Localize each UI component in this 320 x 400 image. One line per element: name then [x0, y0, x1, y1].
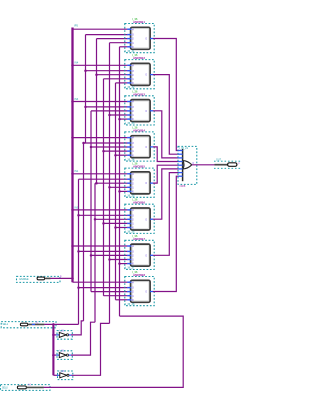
- junction B-bar row U2: [84, 69, 87, 72]
- wire to INV3 input: [53, 374, 57, 376]
- wire to U1 pin2: [86, 34, 128, 36]
- junction D row U6: [102, 222, 105, 225]
- svg-text:AND5B3: AND5B3: [133, 92, 145, 96]
- wire net B-bar vertical x83 lower: [83, 143, 85, 321]
- wire net EN2 vertical x119: [119, 47, 121, 316]
- wire U2 output to OR8 input 2: [153, 75, 179, 155]
- input terminal A1: [1, 321, 56, 327]
- junction riser INV1 tap: [52, 334, 55, 337]
- svg-text:IN1: IN1: [75, 170, 79, 173]
- svg-text:AND5B8: AND5B8: [133, 273, 145, 277]
- wire E to U8 pin1: [73, 281, 128, 283]
- junction E terminal to bus: [71, 277, 74, 280]
- svg-text:I_36_38: I_36_38: [125, 303, 135, 306]
- wire to INV1 input: [53, 334, 56, 336]
- wire to U3 pin2: [86, 106, 128, 108]
- junction B row U8: [77, 286, 80, 289]
- svg-text:O: O: [145, 110, 147, 113]
- wire to U3 pin3: [91, 110, 127, 112]
- wire U3 output to OR8 input 3: [153, 111, 179, 158]
- wire net D-bar vertical x109: [109, 43, 111, 324]
- inverter INV2: [56, 351, 72, 360]
- wire to U8 pin3: [91, 291, 127, 293]
- wire net C-bar vertical x96 upper: [96, 39, 98, 184]
- wire to U6 pin4: [104, 222, 128, 224]
- junction E bus row U6: [71, 209, 74, 212]
- junction C-bar row U5: [95, 182, 98, 185]
- junction D-bar row U3: [108, 114, 111, 117]
- wire INV1 output to riser x85: [71, 321, 84, 335]
- junction EN2 row U5: [118, 190, 121, 193]
- wire E terminal to bus: [50, 277, 72, 279]
- output terminal OUT: [214, 159, 241, 169]
- svg-text:O: O: [145, 74, 147, 77]
- wire U8 output to OR8 input 8: [153, 176, 179, 291]
- svg-text:IN4: IN4: [75, 62, 79, 65]
- junction riser INV2 tap: [52, 354, 55, 357]
- svg-text:OUT: OUT: [216, 159, 222, 162]
- svg-text:OR8: OR8: [180, 184, 186, 188]
- wire to U8 pin2: [79, 287, 128, 289]
- junction EN3 row U6: [114, 226, 117, 229]
- wire to U7 pin2: [79, 250, 128, 252]
- wire OR8 output to OUT terminal: [192, 164, 215, 166]
- junction C-bar row U2: [95, 73, 98, 76]
- junction D-bar row U5: [108, 186, 111, 189]
- junction D-bar row U7: [108, 258, 111, 261]
- svg-text:AND5B5: AND5B5: [133, 165, 145, 169]
- and-block U1 (AND5B1): [125, 17, 154, 53]
- wire E to U4 pin1: [73, 137, 128, 139]
- svg-text:SEL1: SEL1: [3, 324, 9, 326]
- input terminal A0 (bottom): [1, 384, 51, 391]
- wire net C vertical x91: [90, 111, 92, 292]
- wire to U6 pin3: [95, 218, 127, 220]
- wire to U7 pin5: [120, 263, 128, 265]
- svg-text:AND5B7: AND5B7: [133, 237, 145, 241]
- wire net B-bar vertical x85 upper: [85, 35, 87, 143]
- junction E bus row U7: [71, 245, 74, 248]
- junction EN2 row U7: [118, 262, 121, 265]
- wire to U5 pin3: [97, 182, 128, 184]
- wire to U5 pin2: [79, 178, 128, 180]
- wire E to U2 pin1: [73, 64, 128, 66]
- wire E to U6 pin1: [73, 209, 128, 211]
- wire U4 output to OR8 input 4: [153, 147, 179, 162]
- junction A1 wire to inverter riser: [52, 323, 55, 326]
- wire net EN3 vertical x115: [115, 83, 117, 300]
- wire to U3 pin5: [120, 118, 128, 120]
- svg-text:O: O: [145, 146, 147, 149]
- wire to U2 pin5: [116, 82, 128, 84]
- wire to U7 pin3: [91, 254, 127, 256]
- junction E bus row U5: [71, 173, 74, 176]
- junction C-bar row U6: [94, 218, 97, 221]
- wire net C-bar vertical x95 lower: [94, 183, 96, 322]
- wire E to U1 pin1: [73, 28, 128, 30]
- wire A1 terminal to riser x78: [44, 323, 78, 325]
- wire E bus vertical x72: [71, 28, 73, 283]
- svg-text:O: O: [145, 218, 147, 221]
- wire INV2 output to riser x98: [71, 322, 95, 355]
- wire E to U3 pin1: [73, 101, 128, 103]
- wire net D vertical x103: [103, 79, 105, 296]
- svg-text:IP5: IP5: [74, 23, 78, 27]
- svg-text:SEL0: SEL0: [2, 387, 8, 389]
- wire to U1 pin5: [120, 46, 128, 48]
- wire to U4 pin3: [91, 146, 127, 148]
- wire net B-bar jog y143: [84, 142, 86, 144]
- and-block U4 (AND5B4): [125, 125, 154, 161]
- svg-text:IN3: IN3: [75, 98, 79, 101]
- junction E bus row U4: [71, 136, 74, 139]
- wire to U3 pin4: [110, 114, 128, 116]
- wire to U2 pin2: [86, 70, 128, 72]
- junction B-bar row U3: [84, 106, 87, 109]
- and-block U2 (AND5B2): [125, 53, 154, 89]
- inverter INV1: [56, 331, 72, 340]
- or-gate U9 (OR8): [178, 146, 197, 188]
- wire to U5 pin5: [120, 190, 128, 192]
- wire to U4 pin4: [104, 150, 128, 152]
- wire to U8 pin5: [116, 299, 128, 301]
- wire U6 output to OR8 input 6: [153, 169, 179, 219]
- svg-text:AND5B4: AND5B4: [133, 128, 145, 132]
- wire to U1 pin4: [110, 42, 128, 44]
- wire U1 output to OR8 input 1: [153, 39, 179, 151]
- junction B row U7: [77, 250, 80, 253]
- junction B row U6: [77, 214, 80, 217]
- svg-text:AND5B1: AND5B1: [133, 20, 145, 24]
- svg-text:ENABLE: ENABLE: [20, 278, 30, 281]
- svg-text:O: O: [145, 38, 147, 41]
- and-block U3 (AND5B3): [125, 89, 154, 125]
- and-block U5 (AND5B5): [125, 162, 154, 198]
- wire to U6 pin2: [79, 214, 128, 216]
- and-block U6 (AND5B6): [125, 198, 154, 234]
- wire to U8 pin4: [104, 295, 128, 297]
- and-block U8 (AND5B8): [125, 270, 154, 306]
- wire U7 output to OR8 input 7: [153, 173, 179, 256]
- svg-text:O: O: [145, 182, 147, 185]
- svg-text:AND5B6: AND5B6: [133, 201, 145, 205]
- wire A0 terminal loop to riser x119: [44, 316, 184, 387]
- svg-text:IN0: IN0: [75, 206, 79, 209]
- junction C row U4: [90, 146, 93, 149]
- wire E to U5 pin1: [73, 173, 128, 175]
- wire to U4 pin2: [84, 142, 128, 144]
- junction B-bar row U4: [82, 142, 85, 145]
- and-block U7 (AND5B7): [125, 234, 154, 270]
- junction C row U7: [90, 254, 93, 257]
- wire riser to inverter inputs x53: [52, 324, 54, 375]
- svg-text:O: O: [145, 254, 147, 257]
- junction E bus row U3: [71, 100, 74, 103]
- wire to U2 pin4: [104, 78, 128, 80]
- wire to U1 pin3: [97, 38, 128, 40]
- wire U5 output to OR8 input 5: [153, 165, 179, 183]
- wire to U4 pin5: [116, 154, 128, 156]
- wire to INV2 input: [53, 354, 56, 356]
- svg-text:O: O: [145, 291, 147, 294]
- wire to U7 pin4: [110, 259, 128, 261]
- svg-text:AND5B2: AND5B2: [133, 56, 145, 60]
- wire E to U7 pin1: [73, 245, 128, 247]
- wire to U6 pin5: [116, 227, 128, 229]
- junction D row U4: [102, 150, 105, 153]
- inverter INV3: [57, 371, 73, 380]
- wire to U2 pin3: [97, 74, 128, 76]
- wire net B vertical x78: [78, 179, 80, 324]
- wire to U5 pin4: [110, 186, 128, 188]
- wire net C-bar jog y183: [95, 182, 97, 184]
- input terminal E: [17, 275, 63, 282]
- junction E bus row U2: [71, 64, 74, 67]
- junction EN3 row U4: [114, 154, 117, 157]
- wire INV3 output to riser x110: [72, 323, 110, 375]
- junction EN2 row U3: [118, 118, 121, 121]
- svg-text:I_36_21: I_36_21: [179, 147, 189, 150]
